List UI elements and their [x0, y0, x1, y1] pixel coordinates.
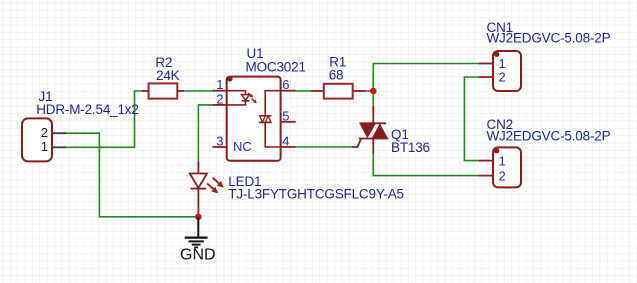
svg-text:5: 5: [282, 108, 289, 123]
internal LED of U1: [227, 91, 246, 95]
svg-text:1: 1: [216, 77, 223, 92]
svg-text:GND: GND: [180, 247, 216, 264]
connector CN1: [479, 51, 521, 91]
wire J1 pin1 to R2 left: [66, 91, 142, 147]
wire R2 right to U1 pin1: [184, 90, 212, 92]
pin 1 stub: [212, 90, 226, 92]
svg-text:BT136: BT136: [391, 140, 430, 155]
svg-text:WJ2EDGVC-5.08-2P: WJ2EDGVC-5.08-2P: [487, 128, 611, 143]
wire node A up to CN1 pin1: [373, 64, 478, 92]
svg-text:3: 3: [216, 134, 223, 149]
svg-text:1: 1: [41, 139, 48, 154]
wire Q1 MT1 to CN2 pin2: [373, 153, 478, 176]
svg-text:2: 2: [499, 168, 506, 183]
pin 4 stub: [281, 146, 296, 148]
connector J1: [22, 118, 66, 161]
svg-text:2: 2: [499, 70, 506, 85]
LED LED1: [190, 162, 226, 217]
op-amp U1 optocoupler MOC3021 body: [212, 77, 295, 161]
wire R1 right to node A junction: [366, 90, 373, 92]
svg-text:NC: NC: [233, 139, 252, 154]
svg-text:68: 68: [329, 68, 344, 83]
pin 5 stub: [281, 121, 296, 123]
svg-text:TJ-L3FYTGHTCGSFLC9Y-A5: TJ-L3FYTGHTCGSFLC9Y-A5: [228, 186, 404, 201]
svg-text:WJ2EDGVC-5.08-2P: WJ2EDGVC-5.08-2P: [487, 31, 611, 46]
wire node A down to Q1 MT2: [372, 91, 374, 108]
svg-text:2: 2: [41, 125, 48, 140]
svg-text:2: 2: [216, 91, 223, 106]
svg-text:1: 1: [499, 153, 506, 168]
wire CN1 pin2 to CN2 pin1: [464, 77, 478, 161]
pin 3 stub: [212, 146, 226, 148]
wire J1 pin2 to GND net (down-left path): [66, 133, 195, 217]
pin 6 stub: [281, 90, 296, 92]
node A junction dot: [370, 88, 377, 95]
svg-text:4: 4: [282, 134, 289, 149]
ground: [185, 217, 208, 248]
svg-text:MOC3021: MOC3021: [246, 60, 306, 75]
svg-text:HDR-M-2.54_1x2: HDR-M-2.54_1x2: [36, 102, 139, 117]
internal triac of U1: [265, 91, 280, 116]
wire U1 pin2 to LED1 anode: [198, 105, 212, 163]
svg-text:6: 6: [282, 77, 289, 92]
pin 2 stub: [212, 104, 226, 106]
connector CN2: [479, 147, 521, 187]
svg-text:24K: 24K: [156, 68, 180, 83]
transistor Q1 triac BT136: [352, 106, 388, 154]
pin-1 marker dot of CN1: [494, 52, 499, 57]
pin-1 marker dot of CN2: [494, 148, 499, 153]
pin-1 marker dot of U1: [227, 76, 232, 81]
resistor R2: [142, 83, 185, 98]
wire U1 pin4 to Q1 gate: [296, 146, 352, 148]
resistor R1: [311, 84, 367, 99]
wire U1 pin6 to R1 left: [296, 90, 311, 92]
junction dot at GND net: [195, 214, 202, 221]
